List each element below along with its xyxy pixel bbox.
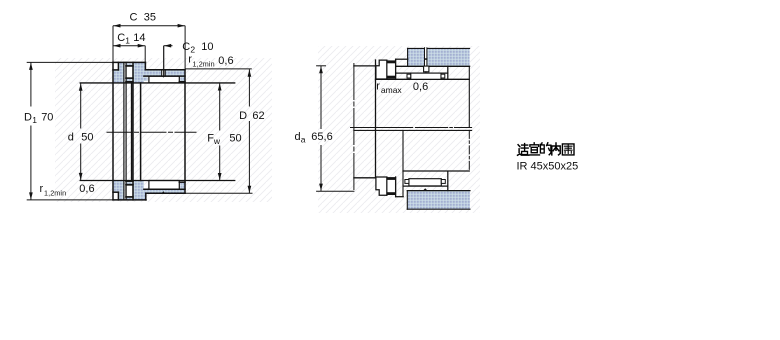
oil hole square through ring — [424, 66, 429, 72]
thrust cage cell bottom — [387, 180, 396, 192]
bearing right face top — [447, 66, 449, 79]
needle cage blocks top — [407, 74, 411, 78]
svg-text:0,6: 0,6 — [218, 55, 233, 67]
washer top notch — [113, 62, 118, 70]
D1 arrows — [29, 63, 33, 70]
housing block top hatched — [408, 48, 470, 66]
Fw arrows — [218, 83, 222, 90]
lubrication notch bottom — [162, 191, 165, 193]
thrust roller bottom (white) — [126, 185, 133, 197]
needle roller row top (white) — [149, 76, 179, 83]
right view labels — [295, 80, 429, 144]
washer outline top (right view) — [376, 60, 387, 79]
thrust cage strip A top — [126, 64, 132, 66]
cage strip lines top A — [126, 65, 133, 67]
D1 top extension — [27, 61, 113, 63]
svg-text:1,2min: 1,2min — [44, 189, 66, 198]
lubrication slot top — [162, 69, 165, 76]
svg-text:C: C — [182, 41, 190, 53]
svg-text:1: 1 — [32, 115, 37, 125]
outer ring flange + band bottom-half hatched — [133, 181, 185, 200]
C1 arrows — [113, 44, 120, 48]
Fw dimension line — [219, 83, 221, 131]
needle roller row bottom (white) — [149, 181, 179, 190]
svg-text:62: 62 — [252, 110, 264, 122]
bearing right face bottom — [447, 171, 449, 190]
band bottom / needle top line — [396, 72, 448, 74]
left view labels — [24, 12, 265, 198]
svg-text:1,2min: 1,2min — [193, 60, 215, 69]
r ref line top right — [185, 68, 252, 70]
C extension right — [184, 26, 186, 70]
thrust cage strip A bottom — [126, 197, 132, 200]
svg-text:r: r — [40, 183, 44, 195]
C2 leader tail — [164, 45, 173, 47]
svg-text:C: C — [130, 12, 138, 24]
bottom shaft line right — [403, 170, 469, 172]
svg-text:amax: amax — [381, 85, 403, 95]
C1 extension right — [144, 46, 146, 62]
svg-text:0,6: 0,6 — [79, 183, 94, 195]
thrust cage strip B top — [126, 79, 132, 82]
C2 arrow — [164, 44, 171, 48]
needle cage blocks bottom — [405, 180, 409, 184]
retaining lip bottom right — [180, 182, 185, 189]
needle row bottom (right view) — [409, 179, 441, 186]
cage strip lines bottom A — [126, 196, 133, 198]
svg-text:65,6: 65,6 — [311, 131, 332, 143]
glyph 适 — [518, 144, 529, 156]
d arrows — [79, 84, 83, 91]
needle row top (right view) — [411, 73, 441, 79]
cavity sliver line — [125, 62, 127, 200]
washer outline bottom (right view) — [376, 177, 387, 195]
thrust roller top (white) — [126, 66, 133, 78]
bore lines with extensions — [80, 83, 235, 181]
lubrication slot notch tip top — [162, 76, 165, 78]
oil hole stub line — [425, 72, 427, 74]
band bottom / roller top line top-half — [144, 75, 185, 77]
flange step bottom — [145, 193, 147, 200]
cage strip left of needle rollers top — [144, 77, 148, 81]
flange right edge line in bore region — [140, 83, 142, 181]
housing bottom borders — [407, 190, 470, 192]
washer bottom notch — [113, 192, 118, 200]
dimension C1 line — [113, 45, 145, 47]
glyph 的 — [540, 143, 551, 155]
glyph 宜 — [529, 143, 539, 155]
svg-text:70: 70 — [41, 111, 53, 123]
flange left face — [132, 62, 134, 200]
dimension C line — [113, 25, 185, 27]
abutment boundary dash-dot vertical — [353, 64, 355, 192]
svg-text:D: D — [24, 111, 32, 123]
D bottom extension — [185, 192, 252, 194]
cage strip lines top B — [126, 77, 133, 79]
glyph 内 — [552, 143, 560, 155]
housing top borders — [408, 47, 470, 49]
svg-text:C: C — [117, 32, 125, 44]
caption 适宜的内圈 — [518, 143, 575, 156]
housing block bottom hatched — [407, 191, 470, 209]
top surface line — [113, 61, 145, 63]
band top line — [145, 69, 185, 71]
left face — [112, 62, 114, 200]
oil passage mid bar — [424, 58, 427, 60]
band bottom line bottom-half — [146, 192, 185, 194]
cage strip edge line in bore region — [131, 83, 133, 181]
vertical edge at 403 — [402, 131, 404, 197]
retaining lip top right — [180, 76, 185, 82]
thrust cage cell top: side lines, black bars, roller white — [387, 63, 396, 75]
washer bottom-half hatched body — [113, 181, 124, 200]
shoulder top line — [354, 65, 376, 67]
svg-text:35: 35 — [144, 12, 156, 24]
D dimension line — [248, 69, 250, 106]
svg-text:10: 10 — [201, 41, 213, 53]
glyph 圈 — [562, 144, 574, 155]
part outlines — [113, 62, 185, 200]
d_a dimension — [317, 66, 354, 192]
break line lower (solid) — [354, 129, 472, 131]
bottom surface line — [113, 199, 146, 201]
svg-text:14: 14 — [133, 32, 145, 44]
bottom notch outline — [117, 192, 119, 200]
d dimension line — [80, 83, 82, 128]
svg-text:r: r — [376, 80, 380, 92]
cage strip lines bottom B — [126, 180, 133, 182]
right face — [184, 70, 186, 193]
lip top edge bottom-half — [179, 181, 185, 183]
D1 dimension line — [30, 62, 32, 106]
svg-text:50: 50 — [229, 133, 241, 145]
shaft profile lines — [354, 60, 469, 178]
flange step top — [144, 62, 146, 69]
top notch outline — [117, 62, 119, 70]
washer right face — [123, 62, 125, 200]
shaft seat line — [376, 78, 470, 80]
C2 extension into oil hole — [163, 46, 165, 77]
arrowheads left view — [29, 24, 251, 200]
left figure faint hatch background — [55, 58, 272, 202]
washer top-half hatched body — [113, 62, 124, 83]
D1/r bottom extension — [27, 199, 113, 201]
lip bottom edge top-half — [179, 81, 185, 83]
oil notch bottom (right view) — [423, 188, 427, 190]
bottom shoulder line — [354, 177, 376, 179]
svg-text:0,6: 0,6 — [413, 81, 428, 93]
centerline — [107, 131, 196, 133]
outer ring flange + band top-half hatched — [133, 62, 185, 83]
shoulder/washer face — [375, 60, 377, 177]
housing bore line top — [396, 65, 470, 67]
right figure faint hatch background — [318, 46, 480, 213]
C extension left — [112, 26, 114, 62]
break line upper (dash-dot) — [351, 127, 472, 129]
oil passage lines through housing — [425, 48, 427, 67]
flange outline bottom (right view) — [396, 171, 448, 197]
thrust cage strip B bottom — [126, 182, 132, 185]
svg-text:IR 45x50x25: IR 45x50x25 — [517, 161, 579, 173]
svg-text:w: w — [213, 136, 221, 146]
roller top line bottom-half — [144, 188, 185, 190]
D arrows — [248, 70, 252, 77]
flange outline top (right view) — [396, 59, 448, 79]
shaft end face vertical — [468, 66, 470, 127]
svg-text:1: 1 — [125, 35, 130, 45]
C arrows — [113, 24, 120, 28]
svg-text:50: 50 — [81, 132, 93, 144]
svg-text:a: a — [301, 135, 306, 145]
svg-text:d: d — [68, 132, 74, 144]
needle bottom line bottom-half — [404, 185, 448, 187]
svg-text:D: D — [239, 110, 247, 122]
